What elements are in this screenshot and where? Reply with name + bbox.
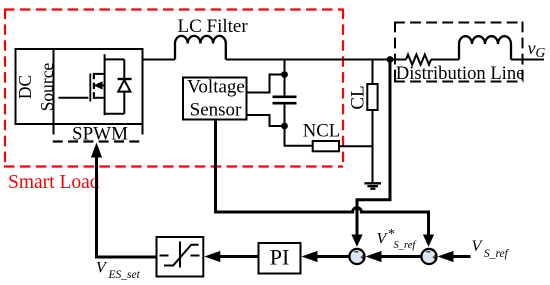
thick wire: bus junction down xyxy=(357,60,390,236)
node dot top of capacitor xyxy=(281,71,288,78)
capacitor C1 xyxy=(273,75,297,127)
body tap xyxy=(94,84,105,86)
main bus wire xyxy=(226,59,406,61)
arrow into summing junction 2 xyxy=(423,235,434,247)
resistor R (distribution, zigzag) xyxy=(406,55,431,65)
arrow into PI xyxy=(302,251,318,262)
arrow into limiter xyxy=(204,251,220,262)
diode leads xyxy=(123,59,125,79)
wire summing 2 to summing 1 xyxy=(379,255,421,258)
main bar xyxy=(104,54,106,115)
svg-text:Voltage: Voltage xyxy=(187,77,245,98)
wire: capacitor bottom to NCL xyxy=(285,126,313,146)
wire inductor to vG xyxy=(511,59,544,61)
svg-text:NCL: NCL xyxy=(303,120,340,141)
svg-text:Sensor: Sensor xyxy=(190,100,242,121)
inductor L1 (LC filter) xyxy=(175,36,226,60)
wire: capacitor tap xyxy=(284,60,286,75)
ground xyxy=(364,183,381,189)
svg-text:LC Filter: LC Filter xyxy=(178,16,249,37)
wire NCL to ground branch xyxy=(339,145,373,147)
node: bus junction dot xyxy=(387,56,394,63)
arrow into summing junction 1 xyxy=(351,235,362,247)
wire PI to limiter xyxy=(218,255,259,258)
transistor Q1 (MOSFET) xyxy=(59,54,105,115)
arrow into SPWM xyxy=(91,143,102,158)
cathode bar xyxy=(118,78,132,80)
wire: voltage sensor top connection xyxy=(246,75,285,93)
gate bar xyxy=(89,74,91,102)
gate lead xyxy=(59,97,89,99)
DC source / converter box U1 xyxy=(16,49,143,124)
svg-text:Distribution Line: Distribution Line xyxy=(396,63,525,84)
svg-text:PI: PI xyxy=(270,245,290,270)
svg-text:ES_set: ES_set xyxy=(108,269,141,281)
wire CL to ground xyxy=(372,110,374,183)
resistor CL xyxy=(367,84,377,110)
svg-text:CL: CL xyxy=(348,85,369,109)
DC Source label (rotated) xyxy=(15,62,57,111)
V_S_ref input wire xyxy=(452,255,471,258)
thick wire: voltage sensor output with hop xyxy=(216,120,429,236)
channel bar segments xyxy=(93,73,95,79)
limiter box xyxy=(157,237,204,277)
wire bus to CL xyxy=(372,60,374,85)
summing junction 1 signs xyxy=(354,252,365,260)
arrow into summing junction 2 right xyxy=(438,251,454,262)
SPWM box (dashed) xyxy=(53,124,145,142)
Smart Load boundary (red dashed box) xyxy=(4,9,343,167)
summing junction 2 xyxy=(421,249,436,264)
inductor L (distribution) xyxy=(459,36,511,59)
limiter symbol xyxy=(160,242,201,268)
svg-text:Smart Load: Smart Load xyxy=(8,172,100,193)
arrow into summing junction 1 right xyxy=(366,251,382,262)
wire: voltage sensor bottom connection xyxy=(246,115,285,126)
source tap xyxy=(94,97,105,99)
svg-text:Source: Source xyxy=(37,62,57,111)
svg-text:SPWM: SPWM xyxy=(72,124,128,145)
summing junction 1 xyxy=(349,249,364,264)
wire resistor to inductor xyxy=(431,59,459,61)
wire summing 1 to PI xyxy=(315,255,349,258)
MOSFET body arrow xyxy=(94,81,103,89)
diode D1 xyxy=(105,59,132,113)
node dot bottom of capacitor xyxy=(281,123,288,130)
summing junction 2 signs xyxy=(426,252,437,260)
Voltage Sensor box xyxy=(183,78,247,120)
diode bottom branch xyxy=(105,113,125,115)
svg-text:S_ref: S_ref xyxy=(394,240,418,251)
Distribution Line box (black dashed) xyxy=(394,22,524,82)
PI box xyxy=(259,243,301,274)
drain tap xyxy=(94,73,105,75)
svg-text:S_ref: S_ref xyxy=(484,248,510,260)
diode top branch xyxy=(105,58,125,60)
diode triangle xyxy=(118,80,130,92)
DC source divider xyxy=(53,49,55,124)
svg-text:DC: DC xyxy=(15,75,35,99)
resistor NCL xyxy=(313,141,339,151)
wire limiter to V_ES_set corner and up to SPWM xyxy=(97,157,157,257)
wire converter output to LC filter xyxy=(143,59,176,61)
